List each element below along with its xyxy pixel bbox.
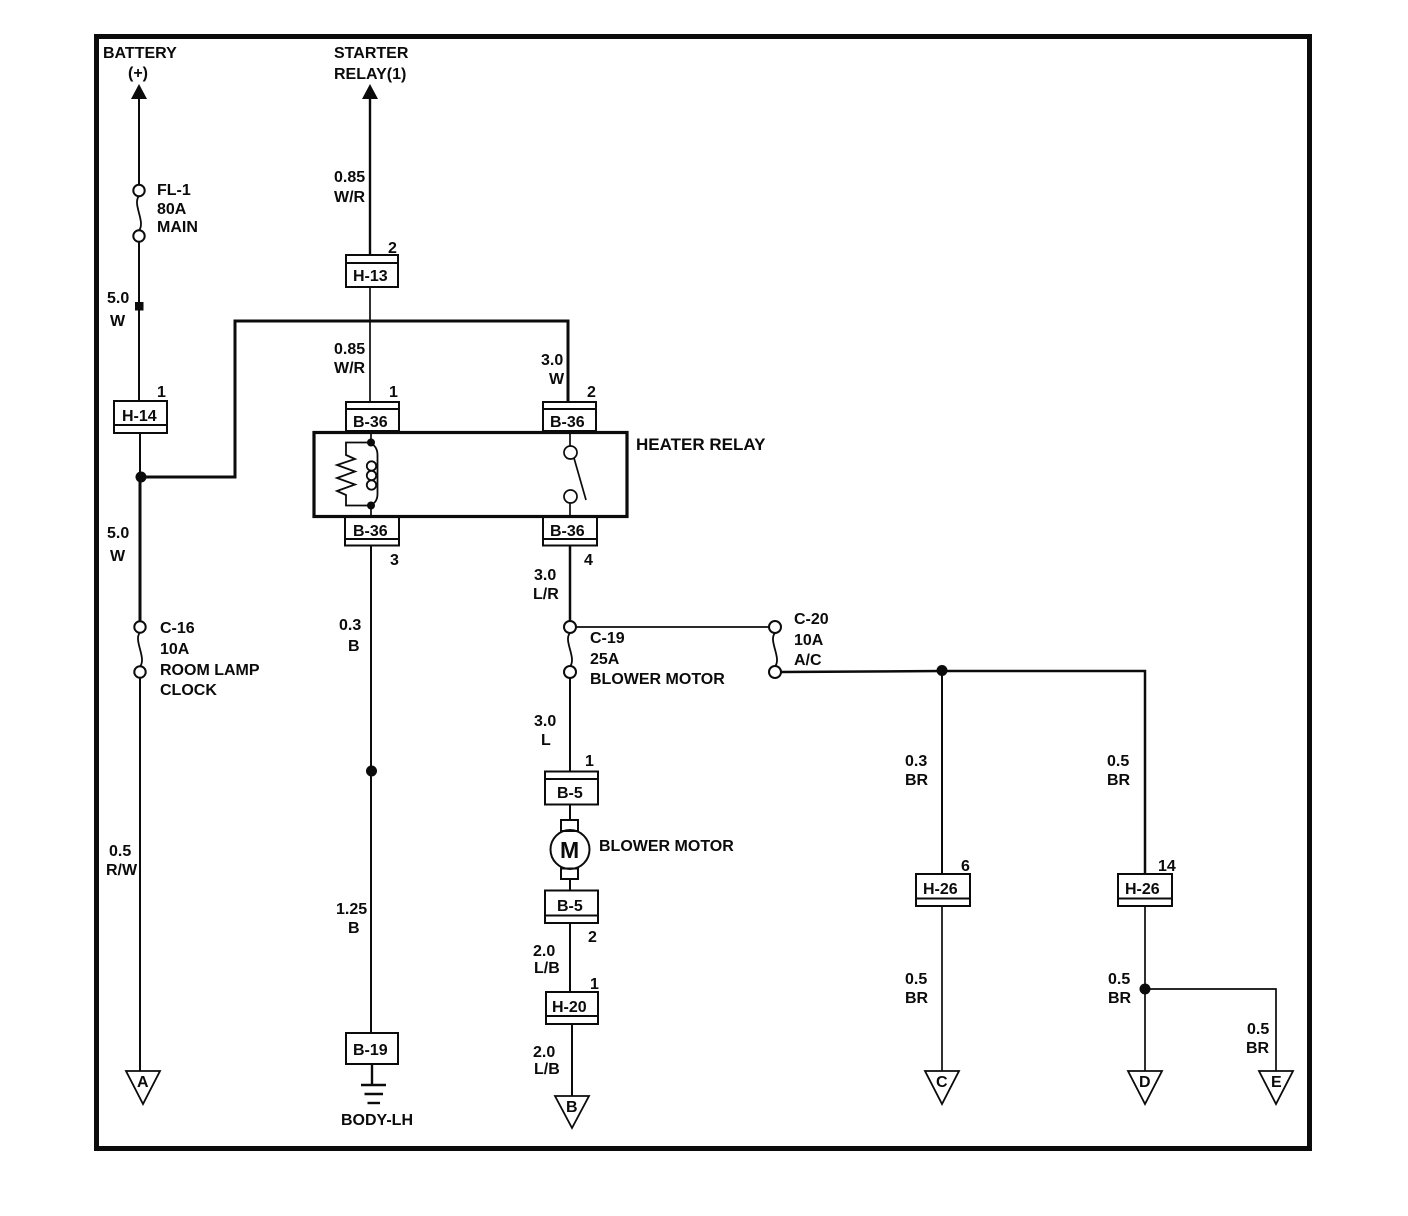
node coil top — [367, 439, 375, 447]
connector B-5 pin1 — [545, 772, 598, 805]
svg-text:W: W — [110, 313, 126, 330]
svg-text:0.3: 0.3 — [339, 617, 361, 634]
wire junction down to H-26 pin6 — [941, 671, 943, 874]
svg-text:B-36: B-36 — [550, 414, 585, 431]
svg-text:1: 1 — [157, 384, 166, 401]
connector H-20 — [546, 992, 598, 1024]
wire label 0.5 BR (below H-26 pin14) — [1108, 971, 1132, 1007]
svg-text:3.0: 3.0 — [534, 567, 556, 584]
ground ref D triangle — [1128, 1071, 1162, 1104]
svg-text:80A: 80A — [157, 201, 187, 218]
connector H-13 — [346, 255, 398, 287]
svg-text:2.0: 2.0 — [533, 943, 555, 960]
svg-text:6: 6 — [961, 858, 970, 875]
svg-text:B: B — [348, 920, 360, 937]
connector B-36 pin2 — [543, 402, 596, 431]
wire C-20 to branches right — [781, 671, 1145, 874]
ground symbol BODY-LH — [361, 1064, 386, 1103]
wire label 2.0 L/B upper — [533, 943, 560, 977]
wire B-36 pin4 down to C-19 — [569, 546, 572, 622]
svg-text:0.5: 0.5 — [1108, 971, 1130, 988]
node coil bottom — [367, 502, 375, 510]
svg-text:25A: 25A — [590, 651, 620, 668]
svg-text:A/C: A/C — [794, 652, 822, 669]
wire label 1.25 B — [336, 901, 367, 937]
wire coil to B-36 pin3 — [370, 506, 372, 518]
svg-text:L/R: L/R — [533, 586, 559, 603]
label C-16 10A ROOM LAMP CLOCK — [160, 620, 260, 699]
svg-text:10A: 10A — [794, 632, 824, 649]
svg-text:HEATER RELAY: HEATER RELAY — [636, 435, 766, 454]
svg-text:B-19: B-19 — [353, 1042, 388, 1059]
svg-text:C-20: C-20 — [794, 611, 829, 628]
wire label 5.0 W lower — [107, 525, 129, 565]
svg-text:2: 2 — [588, 929, 597, 946]
svg-text:B-5: B-5 — [557, 785, 583, 802]
svg-text:L/B: L/B — [534, 1061, 560, 1078]
svg-text:BR: BR — [905, 772, 929, 789]
ground ref B triangle — [555, 1096, 589, 1128]
wire C-19 down to B-5 — [569, 678, 571, 771]
svg-text:W: W — [110, 548, 126, 565]
svg-text:1.25: 1.25 — [336, 901, 367, 918]
wire battery arrow to FL-1 — [138, 97, 140, 185]
connector B-36 pin3 — [345, 517, 399, 546]
wire B-5 pin2 to H-20 — [569, 923, 571, 992]
wire label 3.0 L — [534, 713, 556, 749]
svg-text:ROOM LAMP: ROOM LAMP — [160, 662, 260, 679]
wire label 0.5 BR (D branch) — [1107, 753, 1131, 789]
connector B-5 pin2 — [545, 891, 598, 924]
connector H-14 — [114, 401, 167, 433]
svg-text:1: 1 — [585, 753, 594, 770]
connector B-19 — [346, 1033, 398, 1064]
svg-text:B-5: B-5 — [557, 898, 583, 915]
svg-text:E: E — [1271, 1074, 1282, 1091]
wire label 3.0 W — [541, 352, 565, 388]
splice square on battery wire — [135, 302, 144, 311]
svg-text:0.5: 0.5 — [109, 843, 131, 860]
wire FL-1 to H-14 — [138, 242, 140, 402]
svg-text:0.85: 0.85 — [334, 169, 365, 186]
svg-text:B: B — [566, 1099, 578, 1116]
svg-text:B-36: B-36 — [353, 414, 388, 431]
wire H-26 pin14 to ground ref D — [1144, 906, 1146, 1071]
wire C-19 to C-20 — [576, 626, 769, 628]
svg-text:L: L — [541, 732, 551, 749]
motor M blower motor — [551, 820, 590, 879]
wire junction to heater relay B-36 pin2 (up and over) — [141, 321, 568, 477]
svg-text:W/R: W/R — [334, 189, 366, 206]
svg-text:BR: BR — [1246, 1040, 1270, 1057]
svg-text:D: D — [1139, 1074, 1151, 1091]
svg-text:C: C — [936, 1074, 948, 1091]
wire label 2.0 L/B lower — [533, 1044, 560, 1078]
svg-text:(+): (+) — [128, 65, 148, 82]
splice node on ground wire — [366, 766, 377, 777]
svg-text:BLOWER MOTOR: BLOWER MOTOR — [599, 838, 734, 855]
fuse C-16 — [134, 621, 145, 677]
wire label 0.85 W/R upper — [334, 169, 366, 206]
svg-text:0.5: 0.5 — [1247, 1021, 1269, 1038]
svg-text:3: 3 — [390, 552, 399, 569]
wire label 0.3 B — [339, 617, 361, 655]
svg-text:0.5: 0.5 — [1107, 753, 1129, 770]
svg-text:1: 1 — [389, 384, 398, 401]
svg-text:3.0: 3.0 — [541, 352, 563, 369]
svg-text:RELAY(1): RELAY(1) — [334, 66, 406, 83]
wire label 0.5 BR (E branch) — [1246, 1021, 1270, 1057]
wire H-20 to ground ref B — [571, 1024, 573, 1096]
svg-text:L/B: L/B — [534, 960, 560, 977]
svg-text:14: 14 — [1158, 858, 1176, 875]
svg-text:H-13: H-13 — [353, 268, 388, 285]
svg-text:C-16: C-16 — [160, 620, 195, 637]
svg-text:M: M — [560, 837, 579, 863]
ground ref E triangle — [1259, 1071, 1293, 1104]
svg-text:BATTERY: BATTERY — [103, 45, 177, 62]
wire junction down to C-16 — [139, 477, 142, 622]
fuse C-19 — [564, 621, 576, 678]
arrow to starter relay — [362, 84, 378, 99]
ground ref C triangle — [925, 1071, 959, 1104]
svg-text:B-36: B-36 — [550, 523, 585, 540]
junction node to E branch — [1140, 984, 1151, 995]
wire label 0.3 BR — [905, 753, 929, 789]
svg-text:H-20: H-20 — [552, 999, 587, 1016]
node STARTER RELAY(1) label — [334, 45, 409, 83]
svg-text:H-26: H-26 — [923, 881, 958, 898]
relay box heater relay — [314, 433, 627, 517]
svg-text:BLOWER MOTOR: BLOWER MOTOR — [590, 671, 725, 688]
connector H-26 pin14 — [1118, 874, 1172, 906]
svg-text:0.3: 0.3 — [905, 753, 927, 770]
wire junction to ground ref E — [1145, 989, 1276, 1071]
svg-text:2: 2 — [587, 384, 596, 401]
svg-text:10A: 10A — [160, 641, 190, 658]
svg-text:CLOCK: CLOCK — [160, 682, 217, 699]
svg-text:B-36: B-36 — [353, 523, 388, 540]
svg-text:W: W — [549, 371, 565, 388]
relay switch contact — [564, 431, 586, 517]
wire starter arrow to H-13 — [369, 97, 371, 255]
svg-text:0.85: 0.85 — [334, 341, 365, 358]
label C-20 10A A/C — [794, 611, 829, 669]
fuse C-20 — [769, 621, 781, 678]
junction node dot — [136, 472, 147, 483]
svg-text:2.0: 2.0 — [533, 1044, 555, 1061]
svg-text:3.0: 3.0 — [534, 713, 556, 730]
wire H-13 to B-36 pin1 — [369, 287, 371, 402]
svg-text:C-19: C-19 — [590, 630, 625, 647]
connector H-26 pin6 — [916, 874, 970, 906]
svg-text:R/W: R/W — [106, 862, 138, 879]
node BATTERY label — [103, 45, 177, 82]
wire label 5.0 W — [107, 290, 129, 330]
svg-text:W/R: W/R — [334, 360, 366, 377]
svg-text:5.0: 5.0 — [107, 290, 129, 307]
wire label 0.5 R/W — [106, 843, 138, 879]
wire label 0.85 W/R lower — [334, 341, 366, 377]
arrow to battery — [131, 84, 147, 99]
relay coil K1 winding branch — [367, 443, 378, 506]
junction node on A/C feed — [937, 665, 948, 676]
svg-text:A: A — [137, 1074, 149, 1091]
svg-text:H-26: H-26 — [1125, 881, 1160, 898]
wire H-14 to junction — [139, 433, 141, 477]
svg-text:STARTER: STARTER — [334, 45, 409, 62]
connector B-36 pin4 — [543, 517, 597, 546]
connector B-36 pin1 — [346, 402, 399, 431]
fusible link FL-1 — [133, 185, 144, 242]
wire B-36 pin3 down to B-19 — [370, 546, 372, 1034]
svg-text:0.5: 0.5 — [905, 971, 927, 988]
svg-text:4: 4 — [584, 552, 593, 569]
svg-text:B: B — [348, 638, 360, 655]
relay coil K1 resistor branch — [337, 443, 371, 506]
label FL-1 80A MAIN — [157, 182, 198, 236]
svg-text:BR: BR — [1107, 772, 1131, 789]
wire label 0.5 BR (C branch) — [905, 971, 929, 1007]
wire B-5 to motor — [569, 805, 571, 821]
svg-text:FL-1: FL-1 — [157, 182, 191, 199]
svg-text:BR: BR — [1108, 990, 1132, 1007]
svg-text:1: 1 — [590, 976, 599, 993]
border frame — [97, 37, 1310, 1149]
svg-text:H-14: H-14 — [122, 408, 157, 425]
svg-text:5.0: 5.0 — [107, 525, 129, 542]
wire into relay coil — [370, 431, 372, 443]
label C-19 25A BLOWER MOTOR — [590, 630, 725, 688]
wire motor to B-5 pin2 — [569, 879, 571, 891]
wire label 3.0 L/R — [533, 567, 559, 603]
wire C-16 to ground ref A — [139, 678, 141, 1072]
svg-text:BR: BR — [905, 990, 929, 1007]
svg-text:MAIN: MAIN — [157, 219, 198, 236]
wire H-26 pin6 to ground ref C — [941, 906, 943, 1071]
ground ref A triangle — [126, 1071, 160, 1104]
svg-text:BODY-LH: BODY-LH — [341, 1112, 413, 1129]
